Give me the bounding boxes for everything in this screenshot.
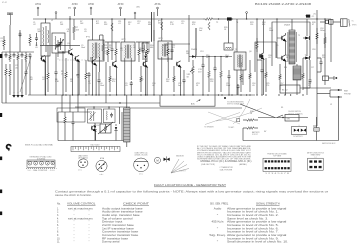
leader from AT30 converter label xyxy=(74,7,76,16)
wire bias row xyxy=(57,108,90,122)
output stage boundary xyxy=(272,22,310,66)
leader from AT30 2nd IF label xyxy=(120,7,122,16)
svg-text:5mf: 5mf xyxy=(199,30,203,32)
label transistor type AT3A (audio) xyxy=(154,3,160,6)
svg-text:0.5: 0.5 xyxy=(276,45,278,47)
basing diagram circle 3 xyxy=(134,158,149,176)
svg-text:.05: .05 xyxy=(268,57,271,59)
svg-text:47-42: 47-42 xyxy=(2,2,7,4)
capacitor C18 xyxy=(317,58,323,72)
svg-text:2nd IF transistor base: 2nd IF transistor base xyxy=(102,224,135,227)
svg-text:Same level as check No. 3.: Same level as check No. 3. xyxy=(227,218,269,220)
wire long vertical pair xyxy=(152,12,155,95)
svg-text:No.: No. xyxy=(57,202,61,205)
svg-text:(M): (M) xyxy=(68,8,71,10)
scan mark 1 xyxy=(0,54,2,58)
IF transformer IFT2 xyxy=(121,42,135,61)
ground G3 xyxy=(20,93,24,98)
resistor R29 xyxy=(324,33,327,48)
svg-text:e b c: e b c xyxy=(139,174,143,176)
svg-text:C17: C17 xyxy=(311,67,314,69)
svg-text:.02: .02 xyxy=(152,85,155,87)
diode D6 osc (dark) xyxy=(93,123,96,141)
node AGC junction xyxy=(119,102,120,103)
leader curve 2 xyxy=(233,99,250,124)
wire ground bus xyxy=(28,94,255,96)
capacitor C21 xyxy=(228,70,231,95)
IF transformer IFT1 xyxy=(88,40,104,61)
resistor R20 in B+ bus xyxy=(203,18,215,21)
wire RF collector xyxy=(69,16,71,49)
svg-text:(ON VOL. CONTROL): (ON VOL. CONTROL) xyxy=(288,113,303,115)
label battery xyxy=(293,135,304,138)
PCB connection table 1 xyxy=(263,153,291,176)
wire det row xyxy=(166,43,190,45)
svg-text:.01: .01 xyxy=(67,31,70,33)
wire Q10 emitter xyxy=(44,62,46,95)
svg-text:Top of volume control: Top of volume control xyxy=(102,217,133,220)
value label C13 xyxy=(198,69,203,73)
junction dots top bus xyxy=(45,18,326,19)
svg-text:Increase in level of check No.: Increase in level of check No. 1. xyxy=(227,211,279,214)
capacitor C13 xyxy=(202,57,205,96)
svg-text:Audio driver transistor base: Audio driver transistor base xyxy=(102,211,144,214)
wire mid drops xyxy=(195,28,197,57)
svg-text:RF transistor base: RF transistor base xyxy=(102,237,129,240)
svg-text:470: 470 xyxy=(192,24,195,26)
polarity bowtie symbol xyxy=(164,156,170,162)
svg-text:Increase in level of check No.: Increase in level of check No. 9. xyxy=(227,237,279,240)
wire antenna stub xyxy=(19,30,22,52)
label earphone xyxy=(344,90,351,96)
volume control VR1 xyxy=(190,60,194,95)
input transformer T4 winding xyxy=(288,30,296,64)
variable capacitor VC1 xyxy=(55,40,62,52)
wire Q4 emitter xyxy=(146,67,148,95)
svg-text:2N408: 2N408 xyxy=(284,25,291,27)
label speaker xyxy=(352,24,357,26)
wire base drop IF1 xyxy=(105,62,107,103)
svg-text:AT30: AT30 xyxy=(72,3,78,6)
corner annotation xyxy=(2,2,7,4)
logo speck xyxy=(8,141,9,143)
wire left rail xyxy=(1,52,3,103)
resistor R6 xyxy=(5,64,8,80)
svg-text:C18: C18 xyxy=(312,49,315,51)
basing diagram circle 2 xyxy=(96,160,107,176)
svg-text:.01: .01 xyxy=(118,23,121,25)
wire T1 top to bus xyxy=(45,19,47,23)
capacitor C4 tuning xyxy=(35,33,38,46)
dial cord path xyxy=(26,161,57,168)
wire battery return xyxy=(243,98,339,141)
label transistor type AT30 (2nd IF) xyxy=(118,3,124,6)
wire IFT3 verticals xyxy=(152,12,155,41)
svg-text:470: 470 xyxy=(312,16,315,18)
wire rail 325 xyxy=(324,19,326,85)
resistor R13 xyxy=(109,66,112,92)
diode D1 detector xyxy=(192,55,196,59)
capacitor C23 xyxy=(29,53,32,95)
svg-text:5mf: 5mf xyxy=(225,57,229,59)
svg-text:(9): (9) xyxy=(314,14,317,16)
column header No. xyxy=(57,202,61,205)
label (M) variant note xyxy=(68,6,140,9)
dial pulley P2 xyxy=(34,161,38,165)
capacitor C11 xyxy=(171,44,174,60)
wire R6 to AGC xyxy=(5,80,7,103)
resistor R22 xyxy=(240,62,243,92)
value label IFT3 xyxy=(159,38,164,40)
resistor R18 xyxy=(173,66,176,92)
resistor R30 xyxy=(243,119,258,122)
transistor Q1 RF amplifier xyxy=(68,49,74,56)
resistor R26 xyxy=(279,64,282,90)
transistor Q4 2nd IF xyxy=(143,61,149,68)
wire Q2 emitter drop xyxy=(95,65,97,95)
svg-text:T5: T5 xyxy=(298,35,300,37)
wire Q1 base xyxy=(58,52,69,57)
svg-text:47: 47 xyxy=(312,24,314,26)
resistor R8 emitter xyxy=(65,58,68,92)
scan mark 3 xyxy=(0,157,2,161)
svg-text:MODEL PO-C (D.) & MODEL MO: MODEL PO-C (D.) & MODEL MO-C (D.) xyxy=(201,159,252,163)
wire bias bottom xyxy=(58,112,130,141)
svg-text:T3: T3 xyxy=(234,51,236,53)
svg-text:100: 100 xyxy=(240,81,243,83)
resistor R12 xyxy=(115,42,118,62)
value label R8 xyxy=(61,71,64,75)
resistor R37 xyxy=(47,45,50,92)
service note paragraph xyxy=(197,145,252,161)
svg-text:.05: .05 xyxy=(84,31,87,33)
component value annotations xyxy=(30,20,332,133)
svg-text:455: 455 xyxy=(96,23,99,25)
svg-text:FAULT LOCATION GUIDE -: FAULT LOCATION GUIDE - GENERATOR TEST xyxy=(154,183,227,187)
capacitor C9 xyxy=(130,81,133,95)
leader from AT31 label xyxy=(37,7,39,16)
svg-text:5mf: 5mf xyxy=(198,71,202,73)
svg-text:Sig. Freq.: Sig. Freq. xyxy=(209,234,226,237)
manufacturer logo xyxy=(7,145,11,152)
node dots mid xyxy=(145,94,230,95)
resistor R16 xyxy=(140,66,143,92)
svg-text:.01: .01 xyxy=(172,47,175,49)
svg-text:1st IF transistor base: 1st IF transistor base xyxy=(102,227,135,230)
leader crossing lines xyxy=(204,112,240,129)
wire C7 drop xyxy=(88,77,90,96)
wire osc top row xyxy=(75,106,130,107)
svg-text:10: 10 xyxy=(250,113,252,115)
resistor R1 antenna shunt xyxy=(3,36,6,50)
transistor Q9 bias xyxy=(91,125,97,132)
dial pulley P5 xyxy=(51,162,54,165)
svg-text:10mf: 10mf xyxy=(100,85,105,87)
svg-text:set at maximum: set at maximum xyxy=(68,207,93,210)
svg-text:56: 56 xyxy=(286,57,288,59)
svg-text:J2: J2 xyxy=(330,104,332,106)
output transformer T5 winding xyxy=(293,66,301,80)
svg-text:Increase in level of check No.: Increase in level of check No. 2. xyxy=(227,214,279,217)
resistor R10 base bias xyxy=(85,60,88,92)
thermistor TH1 xyxy=(98,122,113,134)
capacitor C6 xyxy=(98,72,101,95)
speaker output jack J1 xyxy=(320,19,341,24)
resistor R35 on driver feed xyxy=(208,22,210,30)
column header CHECK POINT xyxy=(123,202,150,205)
intro paragraph line 1 xyxy=(55,191,328,194)
svg-text:OUTPUT: OUTPUT xyxy=(179,171,186,173)
wire IFT1 bottoms xyxy=(92,57,99,95)
svg-text:5mf: 5mf xyxy=(178,85,182,87)
svg-text:(2N408 - BC109): (2N408 - BC109) xyxy=(135,155,148,157)
ferrite bead FB2 xyxy=(306,15,314,18)
value label C2 xyxy=(15,65,19,69)
svg-text:455: 455 xyxy=(158,23,161,25)
capacitor C20 xyxy=(25,60,28,95)
wire RF base drops xyxy=(14,59,22,93)
wire Q5 emitter xyxy=(180,67,182,95)
svg-text:.05: .05 xyxy=(252,85,255,87)
svg-text:Q1: Q1 xyxy=(67,43,70,45)
label transistor type AT30 (converter) xyxy=(72,3,78,6)
capacitor C22 xyxy=(55,53,58,95)
ground G2 xyxy=(16,93,20,98)
svg-text:820: 820 xyxy=(262,24,265,26)
svg-text:IFT3: IFT3 xyxy=(163,45,167,47)
resistor R24 on rail xyxy=(256,38,259,52)
svg-text:EAR: EAR xyxy=(344,90,349,93)
diode D4 xyxy=(114,124,117,141)
note caption xyxy=(224,97,245,106)
resistor R17 xyxy=(167,42,170,62)
leader from AT3A label xyxy=(157,7,159,16)
transistor Q5 1st audio xyxy=(176,61,182,68)
wire secondary return line xyxy=(128,107,242,109)
dial cord title xyxy=(25,143,53,146)
wire IFT1 right top xyxy=(100,35,103,40)
wire diagonal feed to switch xyxy=(240,104,275,118)
wire Q6 emitter xyxy=(263,59,265,95)
svg-text:.05: .05 xyxy=(181,23,184,25)
leader from AT30 1st IF label xyxy=(90,7,92,15)
diode D5 detector output xyxy=(144,52,147,95)
capacitor C15 xyxy=(237,84,240,95)
ferrite bead FB1 on bus xyxy=(227,17,232,20)
resistor R32 xyxy=(64,112,67,141)
oscillator coil box L3 xyxy=(88,107,102,123)
svg-text:VOLUME CONTROL: VOLUME CONTROL xyxy=(67,202,96,205)
svg-text:T3: T3 xyxy=(236,22,238,24)
wire IFT2 top xyxy=(124,19,126,42)
resistor R27 xyxy=(302,58,305,90)
svg-text:10mf: 10mf xyxy=(81,47,86,49)
svg-text:DIAL POINTER: DIAL POINTER xyxy=(220,168,233,171)
wire B+ top bus xyxy=(33,18,203,20)
wire IFT3 bottoms xyxy=(162,57,168,95)
wire IFT2 bottoms xyxy=(125,58,131,95)
wire output drops xyxy=(286,40,308,95)
detector coupling box xyxy=(142,43,149,52)
value label R9 xyxy=(105,45,109,49)
fault guide table rows xyxy=(57,207,289,243)
model title xyxy=(201,159,252,163)
oscillator trimmer box xyxy=(103,107,115,123)
wire TB1 link xyxy=(300,87,331,89)
transistor Q2 converter xyxy=(91,57,97,66)
resistor R28 xyxy=(316,28,319,44)
label osc xyxy=(96,125,100,127)
svg-text:L2: L2 xyxy=(51,20,53,22)
wire switch row xyxy=(258,117,308,119)
fan leader lines xyxy=(171,159,189,173)
scan mark 5 xyxy=(0,212,2,216)
label battery xyxy=(252,131,261,136)
svg-text:.05: .05 xyxy=(35,47,38,49)
svg-text:Audio amp. transistor base: Audio amp. transistor base xyxy=(102,214,141,217)
dial pulley P3 xyxy=(40,161,44,165)
RF tuning coil T1b box xyxy=(52,33,65,53)
svg-text:470: 470 xyxy=(112,81,115,83)
dial cord chassis box xyxy=(27,160,55,167)
wire vertical 196 xyxy=(195,28,197,55)
svg-text:10.: 10. xyxy=(57,238,61,240)
svg-text:AT30: AT30 xyxy=(118,3,124,6)
svg-text:.01: .01 xyxy=(120,50,123,52)
svg-text:AT30: AT30 xyxy=(88,3,94,6)
svg-text:11.: 11. xyxy=(57,242,60,244)
label 9V POS xyxy=(305,16,310,18)
svg-text:SIG. GEN. FREQ.: SIG. GEN. FREQ. xyxy=(210,202,229,205)
wire input node row xyxy=(2,51,34,53)
svg-text:S1: S1 xyxy=(281,107,283,109)
svg-text:T5: T5 xyxy=(305,55,307,57)
dashed gang link xyxy=(58,47,100,60)
svg-text:1 2 3 4 5 6 7 8: 1 2 3 4 5 6 7 8 xyxy=(265,173,289,175)
svg-text:560: 560 xyxy=(166,81,169,83)
wire T2 top xyxy=(228,21,230,43)
wire B+ bus continued xyxy=(215,18,227,20)
capacitor C3 xyxy=(21,53,24,58)
wire vertical 189 xyxy=(188,15,190,62)
junction dots ground bus xyxy=(45,94,304,95)
svg-text:e b c: e b c xyxy=(100,174,104,176)
svg-text:9 VOLT: 9 VOLT xyxy=(252,134,258,136)
dial pulley P4 xyxy=(46,161,50,165)
driver transformer T2 xyxy=(224,43,233,50)
wire Q3 emitter xyxy=(116,67,118,95)
speaker SP1 xyxy=(341,19,355,27)
wire IF1 feeds xyxy=(111,19,113,42)
label 2N408 xyxy=(191,49,198,51)
antenna coil L1 on ferrite rod xyxy=(7,13,13,52)
capacitor C19 xyxy=(72,112,75,141)
dial pulley P1 xyxy=(28,161,32,165)
wire audio coupling row xyxy=(189,56,232,57)
scan mark 4 xyxy=(0,190,2,194)
wire Q11 emitter xyxy=(78,62,80,95)
capacitor C5 bypass xyxy=(77,60,80,95)
svg-text:.02: .02 xyxy=(42,79,45,81)
svg-text:Dummy aerial: Dummy aerial xyxy=(102,241,120,244)
svg-text:Audio output transistor base: Audio output transistor base xyxy=(102,207,144,210)
meter note xyxy=(176,155,186,173)
wire Q1 emitter to ground bus xyxy=(72,55,74,95)
svg-text:.05: .05 xyxy=(125,85,128,87)
resistor R11 xyxy=(107,42,110,62)
value label IFT2 xyxy=(122,39,127,41)
wire bias verticals xyxy=(58,95,78,141)
svg-text:2N408: 2N408 xyxy=(191,49,198,51)
test point TP2 xyxy=(134,12,136,19)
IF transformer IFT3 xyxy=(158,41,172,59)
value label T3 xyxy=(235,49,238,51)
svg-text:Contact generator through a 0.: Contact generator through a 0.1 mf capac… xyxy=(55,191,328,194)
resistor R2 xyxy=(29,34,32,46)
resistor R34 on IFT3 feed xyxy=(161,22,163,30)
svg-text:Converter transistor base: Converter transistor base xyxy=(102,231,139,234)
dial scale caption xyxy=(28,169,55,172)
wire T6 feeds xyxy=(126,95,128,147)
svg-text:Detector input: Detector input xyxy=(102,221,123,224)
column header VOLUME CONTROL xyxy=(67,202,96,205)
label transistor type AT30 (1st IF) xyxy=(88,3,94,6)
capacitor C16 xyxy=(257,60,264,95)
svg-text:.05: .05 xyxy=(88,83,91,85)
svg-text:5 4 . . DIAL POINTER . .: 5 4 . . DIAL POINTER . . 1 6 0 xyxy=(28,169,55,172)
leader curve 1 xyxy=(216,108,262,121)
capacitor C2 xyxy=(13,53,16,58)
wire IFT1 top feed xyxy=(91,19,93,40)
svg-text:680: 680 xyxy=(150,47,153,49)
svg-text:set at maximum: set at maximum xyxy=(68,217,93,220)
svg-text:Allow generator to provide a l: Allow generator to provide a low signal xyxy=(227,234,287,237)
svg-text:SW: SW xyxy=(287,118,290,120)
svg-text:(AERIAL): (AERIAL) xyxy=(239,163,247,166)
svg-text:REAR VIEW: REAR VIEW xyxy=(311,154,321,157)
capacitor C12 xyxy=(183,70,186,95)
resistor R23 xyxy=(249,60,252,92)
svg-text:.02: .02 xyxy=(137,23,140,25)
interstage transformer T3 box xyxy=(234,52,246,70)
svg-text:220: 220 xyxy=(322,57,325,59)
label on-off switch xyxy=(288,111,303,115)
svg-text:CHECK POINT: CHECK POINT xyxy=(123,202,150,205)
resistor R31 xyxy=(243,127,258,130)
svg-text:.02: .02 xyxy=(133,47,136,49)
svg-text:50mf: 50mf xyxy=(269,30,274,32)
earphone jack EP1 xyxy=(323,76,338,80)
svg-text:TOP VIEW: TOP VIEW xyxy=(273,156,282,158)
svg-text:Increase in level of check No.: Increase in level of check No. 5. xyxy=(227,224,279,227)
wire B+ bus to output stage xyxy=(232,18,331,20)
transistor Q3 1st IF xyxy=(112,61,118,68)
label transistor type AT31 (RF stage) xyxy=(35,3,41,6)
svg-text:Increase in level of check No.: Increase in level of check No. 6. xyxy=(227,227,279,230)
driver transformer T6 winding xyxy=(124,108,131,142)
svg-text:Audio: Audio xyxy=(214,207,222,210)
value label R7 xyxy=(76,27,80,31)
resistor R3 xyxy=(9,52,12,62)
svg-text:1M: 1M xyxy=(30,79,33,81)
wire osc right drop xyxy=(119,107,121,124)
svg-text:cause the AGC to function.: cause the AGC to function. xyxy=(55,194,92,197)
svg-text:C13: C13 xyxy=(200,51,203,53)
resistor R4 xyxy=(17,52,20,62)
svg-text:2.2K: 2.2K xyxy=(1,40,6,42)
basing diagram label 3 xyxy=(135,152,148,157)
resistor R25 xyxy=(265,58,268,92)
